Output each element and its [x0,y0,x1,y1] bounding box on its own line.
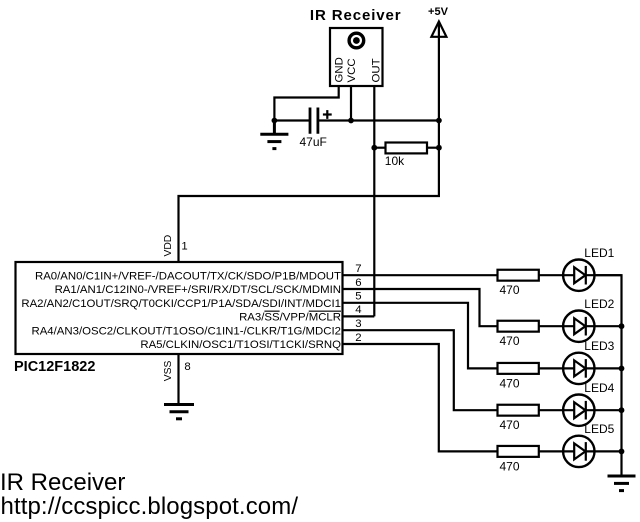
svg-text:VDD: VDD [163,235,174,257]
svg-text:LED5: LED5 [584,422,614,436]
svg-text:RA2/AN2/C1OUT/SRQ/T0CKI/CCP1/P: RA2/AN2/C1OUT/SRQ/T0CKI/CCP1/P1A/SDA/SDI… [21,298,341,310]
svg-text:VSS: VSS [163,360,174,381]
svg-text:LED2: LED2 [584,297,614,311]
svg-text:470: 470 [500,283,520,297]
svg-text:2: 2 [355,332,361,344]
svg-text:470: 470 [500,459,520,473]
svg-text:LED1: LED1 [584,246,614,260]
svg-text:IR Receiver: IR Receiver [0,469,125,496]
svg-text:http://ccspicc.blogspot.com/: http://ccspicc.blogspot.com/ [1,493,299,520]
svg-text:RA5/CLKIN/OSC1/T1OSI/T1CKI/SRN: RA5/CLKIN/OSC1/T1OSI/T1CKI/SRNQ [140,339,341,351]
svg-text:VCC: VCC [346,58,358,82]
svg-text:RA3/SS/VPP/MCLR: RA3/SS/VPP/MCLR [239,312,341,324]
svg-text:6: 6 [355,277,361,289]
svg-text:RA0/AN0/C1IN+/VREF-/DACOUT/TX/: RA0/AN0/C1IN+/VREF-/DACOUT/TX/CK/SDO/P1B… [35,270,341,282]
svg-text:10k: 10k [385,154,405,168]
svg-text:IR Receiver: IR Receiver [310,7,402,24]
svg-text:4: 4 [355,304,361,316]
svg-text:3: 3 [355,318,361,330]
svg-text:+5V: +5V [428,6,449,18]
svg-text:LED4: LED4 [584,381,614,395]
svg-text:LED3: LED3 [584,339,614,353]
svg-text:47uF: 47uF [300,135,327,149]
svg-text:470: 470 [500,334,520,348]
svg-text:470: 470 [500,418,520,432]
svg-text:RA1/AN1/C12IN0-/VREF+/SRI/RX/D: RA1/AN1/C12IN0-/VREF+/SRI/RX/DT/SCL/SCK/… [55,284,341,296]
svg-text:7: 7 [355,263,361,275]
svg-text:5: 5 [355,291,361,303]
svg-text:RA4/AN3/OSC2/CLKOUT/T1OSO/C1IN: RA4/AN3/OSC2/CLKOUT/T1OSO/C1IN1-/CLKR/T1… [31,325,341,337]
svg-text:8: 8 [184,361,190,373]
svg-text:1: 1 [181,240,187,252]
svg-text:PIC12F1822: PIC12F1822 [14,359,95,375]
svg-text:470: 470 [500,376,520,390]
svg-text:OUT: OUT [370,58,382,82]
svg-text:GND: GND [334,57,346,82]
